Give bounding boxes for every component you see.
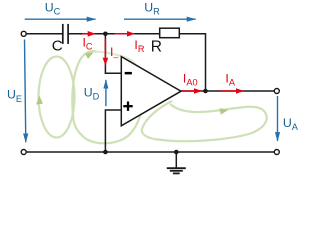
wire: non-inverting input stub down to bottom rail [105, 110, 121, 152]
svg-text:IA: IA [225, 71, 235, 87]
ground [167, 152, 186, 173]
current arrow I_C [82, 33, 95, 35]
resistor R [160, 28, 180, 38]
terminal output top-right [274, 89, 279, 94]
wire: capacitor to node A and on to resistor [68, 33, 160, 35]
svg-text:UD: UD [84, 86, 100, 102]
junction node A (C-R-inverting input) [103, 32, 108, 37]
current arrow I_A [220, 90, 243, 92]
capacitor C [63, 24, 68, 44]
svg-text:UC: UC [45, 0, 61, 16]
terminal output bottom-right [274, 150, 279, 155]
terminal input top-left [21, 31, 26, 36]
svg-text:R: R [151, 38, 162, 55]
current arrow I- into inverting input [104, 39, 106, 66]
voltage arrow U_C [25, 18, 96, 20]
wire: op-amp output to output terminal [180, 90, 274, 92]
voltage arrow U_A [277, 96, 279, 141]
svg-text:IA0: IA0 [183, 71, 198, 87]
svg-text:UA: UA [283, 116, 299, 132]
voltage arrow U_R [124, 18, 196, 20]
svg-text:I–: I– [110, 45, 118, 62]
current loop right (green) [142, 101, 267, 141]
svg-text:IR: IR [134, 38, 144, 54]
wire: resistor to right corner, down to output rail [179, 34, 205, 91]
current loop middle (green) [72, 51, 144, 143]
svg-text:IC: IC [83, 35, 93, 51]
wire: node A down to inverting input stub [105, 34, 121, 73]
junction bottom rail to non-inverting input [103, 150, 108, 155]
svg-text:UR: UR [144, 0, 160, 16]
svg-text:C: C [52, 38, 63, 55]
current arrow I_A0 [182, 90, 202, 92]
wire: top rail input terminal to capacitor [26, 33, 62, 35]
junction output/feedback node [203, 89, 208, 94]
current loop left (green) [36, 57, 75, 138]
voltage arrow U_E [25, 40, 26, 143]
junction bottom rail to ground [174, 150, 179, 155]
svg-text:UE: UE [7, 88, 22, 104]
op-amp U1 [121, 57, 181, 126]
terminal input bottom-left [21, 150, 26, 155]
voltage arrow U_D [105, 80, 107, 106]
current arrow I_R [115, 33, 135, 35]
wire: bottom rail [26, 151, 274, 153]
